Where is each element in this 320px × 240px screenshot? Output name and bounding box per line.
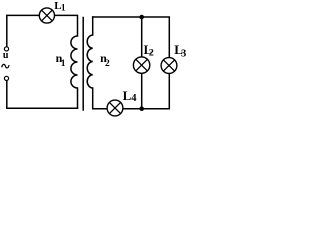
- svg-text:2: 2: [105, 59, 110, 69]
- svg-text:4: 4: [131, 93, 137, 104]
- svg-text:3: 3: [181, 49, 186, 60]
- svg-text:2: 2: [149, 48, 154, 59]
- svg-text:1: 1: [61, 59, 66, 69]
- svg-text:u: u: [3, 50, 9, 61]
- svg-text:1: 1: [61, 3, 66, 13]
